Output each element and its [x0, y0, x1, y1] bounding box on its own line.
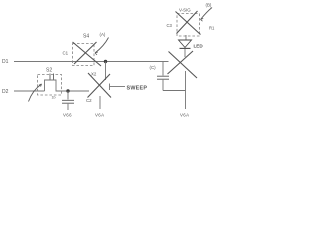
svg-text:V6A: V6A: [180, 113, 189, 118]
svg-text:D2: D2: [2, 89, 9, 95]
photocell S4 dashed enclosure: [73, 44, 95, 66]
switch S2 contact loop: [45, 80, 90, 91]
capacitor C2 plates: [62, 100, 74, 103]
arrow pointing at S4: [95, 38, 109, 54]
svg-text:C3: C3: [167, 23, 173, 28]
wire bottom rail to X3: [163, 90, 186, 92]
arrow pointing at S2: [29, 84, 42, 102]
transistor X2 cross stroke 2: [88, 74, 111, 98]
svg-text:S4: S4: [83, 34, 89, 40]
wire LED to X3: [184, 49, 186, 57]
photocell V-SIG dashed enclosure: [177, 14, 200, 37]
LED cathode bar: [180, 47, 191, 49]
switch S2 dashed enclosure: [38, 75, 62, 96]
wire to sweep terminal: [110, 86, 126, 88]
svg-text:SWEEP: SWEEP: [127, 86, 148, 92]
svg-text:1b: 1b: [52, 96, 56, 100]
svg-text:V-SIG: V-SIG: [179, 8, 191, 13]
sweep terminal tick: [109, 84, 111, 91]
svg-text:R1: R1: [209, 26, 215, 31]
svg-text:C1: C1: [63, 51, 69, 56]
transistor X3 cross stroke 2: [168, 51, 194, 74]
capacitor C3 plates: [157, 76, 169, 79]
photocell V-SIG cross stroke 1: [176, 12, 201, 35]
transistor X2 cross stroke 1: [88, 73, 111, 98]
capacitor C2 lead: [67, 91, 69, 100]
switch S2 capacitor ticks: [50, 74, 54, 80]
arrow pointing at V-SIG cell: [201, 8, 213, 20]
svg-text:D1: D1: [2, 59, 9, 65]
wire from node a down to X2: [105, 62, 107, 81]
wire X3 emitter down: [185, 91, 187, 110]
svg-text:(C): (C): [150, 65, 157, 70]
svg-text:X2: X2: [91, 72, 97, 77]
svg-text:V6A: V6A: [95, 113, 104, 118]
svg-text:S2: S2: [46, 68, 52, 74]
photocell S4 cross stroke 1: [73, 42, 102, 66]
svg-text:LED: LED: [194, 44, 204, 49]
svg-text:(A): (A): [100, 32, 106, 37]
svg-text:(B): (B): [206, 3, 212, 8]
capacitor C3 lower lead: [162, 80, 164, 91]
LED anode triangle: [179, 40, 192, 48]
junction node a on D1: [104, 60, 107, 63]
svg-text:V66: V66: [63, 113, 72, 118]
photocell V-SIG cross stroke 2: [177, 11, 198, 34]
capacitor C2 lead lower: [67, 104, 69, 110]
wire X3 down to rail: [185, 71, 187, 91]
svg-text:C2: C2: [86, 98, 92, 103]
junction node on D2: [66, 89, 69, 92]
transistor X3 cross stroke 1: [169, 52, 198, 79]
wire D2 left segment: [14, 90, 45, 92]
photocell S4 cross stroke 2: [74, 42, 97, 64]
wire D1 corner down: [162, 62, 164, 76]
wire D1 horizontal bus: [14, 61, 169, 63]
wire V-SIG cell to LED: [185, 35, 187, 40]
wire X2 emitter down: [99, 96, 101, 109]
